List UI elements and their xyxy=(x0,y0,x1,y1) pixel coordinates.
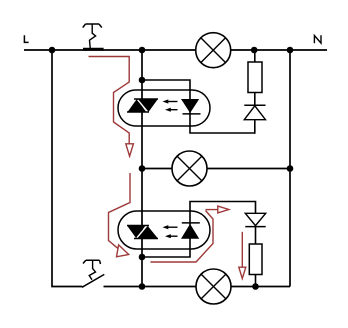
wire LED U2 branch xyxy=(142,202,256,287)
lamp E1 xyxy=(196,33,231,68)
wire right vertical N branch xyxy=(289,50,291,287)
node L junction xyxy=(49,47,56,54)
diode D2 xyxy=(245,213,265,226)
lamp E3 xyxy=(196,269,231,304)
optocoupler U1 LED xyxy=(181,99,201,114)
wire lamp E1 to N xyxy=(231,49,327,51)
node bottom triac xyxy=(139,283,146,290)
optocoupler U1 light arrows xyxy=(163,99,178,111)
node LED U2 tap xyxy=(139,254,146,261)
label L xyxy=(24,35,28,42)
wire R1 D1 branch xyxy=(254,50,256,134)
node N junction xyxy=(287,47,294,54)
resistor R2 xyxy=(249,244,262,275)
lamp E2 xyxy=(172,151,207,186)
optocoupler U2 triac xyxy=(127,225,158,238)
optocoupler U2 light arrows xyxy=(163,225,178,238)
wire lamp E2 right xyxy=(207,168,290,170)
red current path 4 (down through D2 R2) xyxy=(239,232,246,279)
node triac top xyxy=(139,47,146,54)
optocoupler U1 body xyxy=(118,90,210,126)
wire LED U1 top tap xyxy=(142,80,255,133)
node lamp E2 right xyxy=(287,165,294,172)
wire bottom middle xyxy=(104,286,197,288)
wire top L to lamp E1 xyxy=(24,49,196,51)
red current path 1 (switch S1 through triac U1) xyxy=(89,57,134,157)
wire lamp E2 left xyxy=(142,168,172,170)
node lamp E2 left xyxy=(139,165,146,172)
optocoupler U2 LED xyxy=(181,223,200,239)
optocoupler U2 body xyxy=(118,211,210,249)
diode D1 xyxy=(244,105,265,119)
node LED U1 tap xyxy=(139,77,146,84)
switch S1 (closed) xyxy=(83,24,104,49)
node R2 bottom xyxy=(252,283,259,290)
resistor R1 xyxy=(248,62,262,93)
wire triac branch vertical xyxy=(141,50,143,287)
wire left vertical L branch xyxy=(52,50,82,287)
switch S2 (open) xyxy=(82,260,104,287)
wire bottom right xyxy=(231,286,290,288)
node R1 top xyxy=(251,47,258,54)
red current path 2 (triac U2 left side) xyxy=(109,173,131,257)
red current path 3 (around U2 right to D2) xyxy=(151,206,229,262)
label N xyxy=(314,35,321,43)
optocoupler U1 triac xyxy=(127,99,158,112)
